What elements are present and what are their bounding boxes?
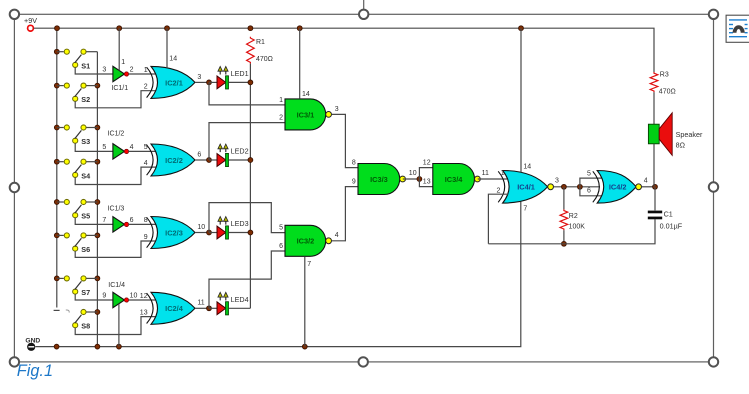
svg-text:C1: C1 — [664, 209, 673, 218]
junction on +9V bus — [297, 26, 302, 31]
svg-text:IC4/2: IC4/2 — [609, 183, 627, 192]
svg-text:6: 6 — [279, 243, 283, 250]
svg-text:11: 11 — [482, 170, 489, 177]
svg-text:LED2: LED2 — [231, 147, 249, 156]
svg-text:GND: GND — [25, 338, 40, 345]
svg-text:IC2/1: IC2/1 — [165, 78, 183, 87]
junction on GND rail — [54, 344, 59, 349]
node IC4/2 input junction — [578, 184, 583, 189]
svg-text:14: 14 — [169, 56, 177, 63]
S8 left terminal artifact arc — [66, 310, 69, 313]
junction on left bus — [54, 200, 59, 205]
wire IC1/3 output to IC2/3 input — [128, 223, 157, 225]
left +9V vertical bus — [56, 28, 58, 307]
junction on LED bus — [248, 158, 253, 163]
switch S8 — [73, 309, 98, 330]
junction on switch bus — [95, 200, 100, 205]
S8 left terminal artifact tick — [54, 309, 60, 311]
node IC3/3 output junction — [417, 177, 422, 182]
svg-text:3: 3 — [555, 177, 559, 184]
svg-text:1: 1 — [144, 67, 148, 74]
inverter IC1/2 — [113, 144, 129, 159]
wire IC3/1 pin14 to +9V — [299, 28, 301, 99]
svg-text:4: 4 — [335, 232, 339, 239]
wire IC3/3 output — [403, 178, 420, 180]
wire to IC4/2 pin5 — [580, 178, 603, 187]
GND rail — [35, 202, 521, 347]
svg-text:Fig.1: Fig.1 — [17, 362, 53, 380]
svg-text:12: 12 — [423, 160, 431, 167]
svg-text:4: 4 — [644, 178, 648, 185]
junction on +9V bus — [519, 26, 524, 31]
svg-text:1: 1 — [279, 97, 283, 104]
wire feedback to IC4/1 pin2 — [488, 194, 508, 244]
svg-text:S1: S1 — [81, 61, 90, 70]
svg-text:10: 10 — [130, 292, 138, 299]
wire R3 to speaker — [653, 92, 655, 124]
junction on GND rail — [117, 344, 122, 349]
junction on GND rail — [95, 344, 100, 349]
node IC4/1 output junction — [562, 184, 567, 189]
junction on switch bus — [95, 276, 100, 281]
svg-text:S5: S5 — [81, 212, 90, 221]
inverter IC1/3 — [113, 217, 129, 232]
selection handle — [359, 10, 368, 19]
svg-text:13: 13 — [140, 309, 148, 316]
GND terminal — [25, 338, 40, 351]
junction on left bus — [54, 49, 59, 54]
+9V bus wire — [34, 28, 654, 72]
svg-text:Speaker: Speaker — [676, 130, 703, 139]
IC4/2 output bubble — [636, 184, 642, 190]
node IC2/2 output junction — [207, 158, 212, 163]
svg-text:6: 6 — [587, 188, 591, 195]
wire IC1/4 output to IC2/4 input — [128, 299, 157, 301]
wire IC2/2 output — [195, 159, 209, 161]
svg-text:+9V: +9V — [24, 16, 37, 25]
switch S2 — [57, 83, 98, 104]
svg-text:7: 7 — [102, 217, 106, 224]
wire S7 to IC1/4 input — [75, 294, 113, 300]
selection handle — [10, 183, 19, 192]
svg-text:IC4/1: IC4/1 — [517, 183, 535, 192]
svg-text:1: 1 — [121, 59, 125, 66]
NAND gate IC3/2 — [285, 225, 332, 256]
selection handle — [10, 357, 19, 366]
svg-text:1: 1 — [501, 170, 505, 177]
switch S4 — [57, 159, 98, 180]
svg-text:IC2/2: IC2/2 — [165, 156, 183, 165]
wire S4 to IC2/2 input — [75, 167, 157, 184]
OR gate IC2/1 — [147, 66, 195, 98]
selection handle — [709, 10, 718, 19]
resistor R2 — [560, 209, 568, 230]
svg-text:5: 5 — [102, 144, 106, 151]
junction on switch bus — [95, 233, 100, 238]
wire IC1/1 pin1 to +9V — [118, 28, 120, 70]
wire IC4/1 out — [554, 186, 601, 188]
svg-text:IC2/3: IC2/3 — [165, 228, 183, 237]
wire IC2/3 output — [195, 232, 209, 234]
capacitor C1 — [648, 209, 683, 230]
svg-text:7: 7 — [523, 206, 527, 213]
svg-text:8Ω: 8Ω — [676, 140, 686, 149]
svg-text:IC1/4: IC1/4 — [108, 282, 125, 289]
+9V terminal — [24, 16, 37, 31]
svg-text:9: 9 — [144, 234, 148, 241]
NAND gate IC3/4 — [433, 164, 481, 195]
LED cathode bus — [249, 64, 251, 309]
svg-text:S6: S6 — [81, 245, 90, 254]
svg-text:LED1: LED1 — [231, 69, 249, 78]
svg-text:IC3/1: IC3/1 — [297, 110, 315, 119]
node speaker junction — [653, 184, 658, 189]
wire S5 to IC1/3 input — [75, 218, 113, 225]
selection handle — [709, 357, 718, 366]
junction on switch bus — [95, 83, 100, 88]
svg-text:12: 12 — [140, 293, 148, 300]
svg-text:10: 10 — [409, 170, 417, 177]
svg-text:6: 6 — [130, 217, 134, 224]
junction on +9V bus — [165, 26, 170, 31]
wire IC1/1 output to IC2/1 input — [128, 73, 157, 75]
junction on switch bus — [95, 159, 100, 164]
svg-text:IC3/4: IC3/4 — [445, 175, 464, 184]
switch S6 — [57, 233, 98, 254]
junction on +9V bus — [248, 26, 253, 31]
wire LED1 node to IC3/1 pin1 — [209, 82, 285, 105]
wire LED2 node to IC3/1 pin2 — [209, 123, 285, 160]
svg-text:IC3/2: IC3/2 — [297, 237, 315, 246]
svg-text:7: 7 — [307, 261, 311, 268]
LED LED4 — [209, 292, 250, 315]
inverter IC1/1 — [113, 66, 129, 81]
svg-text:3: 3 — [197, 74, 201, 81]
wire IC2/1 output — [195, 81, 209, 83]
svg-text:13: 13 — [423, 179, 431, 186]
svg-text:LED4: LED4 — [231, 295, 249, 304]
svg-text:5: 5 — [279, 225, 283, 232]
junction on GND rail — [302, 344, 307, 349]
NOR gate IC4/2 — [593, 171, 636, 204]
wire speaker to IC4/2 out — [653, 144, 655, 187]
switch S7 — [57, 276, 98, 297]
svg-text:4: 4 — [130, 144, 134, 151]
switch common bus (to GND) — [96, 52, 98, 347]
node IC2/3 output junction — [207, 230, 212, 235]
junction on LED bus — [248, 80, 253, 85]
speaker LS1 — [648, 113, 703, 156]
NOR gate IC4/1 — [498, 171, 547, 204]
svg-text:5: 5 — [144, 144, 148, 151]
wire R2 to feedback — [563, 230, 565, 244]
node IC2/4 output junction — [207, 306, 212, 311]
svg-text:2: 2 — [144, 84, 148, 91]
svg-text:100K: 100K — [569, 224, 586, 231]
wire LED4 node to IC3/2 pin6 — [209, 251, 285, 308]
wire to IC4/2 pin6 — [580, 187, 603, 196]
selection handle — [709, 182, 718, 191]
wire to IC3/4 pin13 — [419, 179, 432, 187]
svg-text:11: 11 — [197, 300, 204, 307]
wire IC3/2 out to IC3/3 pin9 — [332, 187, 358, 241]
wire S1 to IC1/1 input — [75, 67, 113, 74]
svg-text:9: 9 — [352, 179, 356, 186]
svg-text:14: 14 — [302, 91, 310, 98]
wire S2 to IC2/1 input — [75, 91, 157, 108]
wire IC1/2 output to IC2/2 input — [128, 150, 157, 152]
junction on left bus — [54, 125, 59, 130]
wire IC3/1 out to IC3/3 pin8 — [332, 114, 358, 167]
NAND gate IC3/1 — [285, 99, 332, 130]
svg-text:S2: S2 — [81, 95, 90, 104]
junction on left bus — [54, 276, 59, 281]
NAND gate IC3/3 — [358, 164, 406, 195]
svg-text:470Ω: 470Ω — [256, 56, 273, 63]
wire IC2/1 pin14 to +9V — [166, 28, 168, 68]
wire S6 to IC2/3 input — [75, 241, 157, 257]
switch S5 — [57, 199, 98, 220]
svg-text:10: 10 — [197, 224, 205, 231]
inverter IC1/4 — [113, 292, 129, 307]
junction on left bus — [54, 83, 59, 88]
rotation stub — [363, 0, 365, 10]
layout options icon — [726, 15, 749, 42]
OR gate IC2/4 — [147, 292, 195, 324]
resistor R3 — [650, 72, 658, 92]
wire IC3/4 out to IC4/1 pin1 — [478, 178, 507, 180]
svg-text:S7: S7 — [81, 288, 90, 297]
svg-text:2: 2 — [130, 66, 134, 73]
switch S3 — [57, 125, 98, 146]
selection handle — [10, 10, 19, 19]
svg-text:LED3: LED3 — [231, 219, 249, 228]
junction on switch bus — [95, 125, 100, 130]
selection handle — [359, 357, 368, 366]
wire LED3 node to IC3/2 pin5 — [209, 203, 285, 233]
junction on +9V bus — [55, 26, 60, 31]
svg-text:0.01µF: 0.01µF — [660, 222, 683, 231]
LED LED2 — [209, 144, 250, 167]
svg-text:R1: R1 — [256, 39, 265, 46]
svg-text:14: 14 — [523, 163, 531, 170]
svg-text:IC3/3: IC3/3 — [370, 175, 388, 184]
svg-text:4: 4 — [144, 160, 148, 167]
svg-text:S8: S8 — [81, 322, 90, 331]
svg-text:2: 2 — [279, 115, 283, 122]
wire IC4/2 out — [642, 186, 655, 188]
wire to C1 — [654, 187, 656, 211]
resistor R1 — [247, 37, 255, 64]
junction on LED bus — [248, 230, 253, 235]
junction on +9V bus — [117, 26, 122, 31]
svg-text:S4: S4 — [81, 171, 91, 180]
node R2 feedback junction — [562, 241, 567, 246]
svg-text:3: 3 — [335, 106, 339, 113]
svg-text:R2: R2 — [569, 213, 578, 220]
LED LED3 — [209, 217, 250, 240]
svg-text:IC2/4: IC2/4 — [165, 304, 184, 313]
LED LED1 — [209, 66, 250, 89]
svg-text:R3: R3 — [660, 72, 669, 79]
svg-text:IC1/3: IC1/3 — [108, 206, 125, 213]
feedback wire — [488, 219, 655, 244]
svg-text:3: 3 — [102, 66, 106, 73]
svg-text:470Ω: 470Ω — [659, 89, 676, 96]
OR gate IC2/2 — [147, 144, 195, 176]
svg-text:IC1/1: IC1/1 — [111, 85, 128, 92]
wire to IC3/4 pin12 — [419, 168, 432, 179]
wire IC3/2 pin7 to GND — [304, 257, 306, 347]
wire S8 to IC2/4 input — [75, 317, 157, 335]
IC4/1 output bubble — [548, 184, 554, 190]
wire IC4/1 pin14 to +9V — [520, 28, 522, 172]
svg-text:5: 5 — [587, 170, 591, 177]
OR gate IC2/3 — [147, 217, 195, 249]
junction on left bus — [54, 159, 59, 164]
svg-text:IC1/2: IC1/2 — [108, 131, 125, 138]
node IC2/1 output junction — [207, 80, 212, 85]
wire S3 to IC1/2 input — [75, 143, 113, 151]
switch S1 — [57, 49, 98, 70]
junction on switch bus — [95, 310, 100, 315]
svg-text:9: 9 — [102, 292, 106, 299]
svg-text:6: 6 — [197, 151, 201, 158]
wire IC2/4 output — [195, 307, 209, 309]
svg-text:8: 8 — [352, 160, 356, 167]
svg-text:2: 2 — [496, 187, 500, 194]
wire to R2 — [563, 187, 565, 210]
svg-text:S3: S3 — [81, 137, 90, 146]
junction on left bus — [54, 233, 59, 238]
svg-text:8: 8 — [144, 217, 148, 224]
wire IC1/4 pin8 to GND — [118, 304, 120, 347]
